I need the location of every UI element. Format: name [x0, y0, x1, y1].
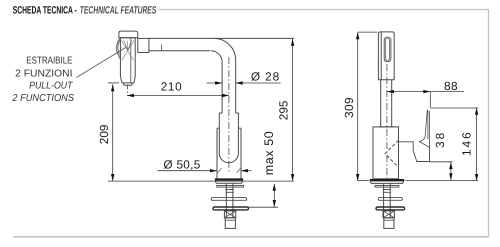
- svg-text:38: 38: [433, 131, 447, 148]
- svg-text:Ø 28: Ø 28: [251, 70, 280, 84]
- svg-text:146: 146: [460, 130, 474, 156]
- svg-text:2 FUNCTIONS: 2 FUNCTIONS: [11, 93, 74, 104]
- svg-text:SCHEDA TECNICA -: SCHEDA TECNICA -: [13, 5, 77, 17]
- svg-text:Ø 50,5: Ø 50,5: [163, 157, 200, 171]
- svg-text:PULL-OUT: PULL-OUT: [29, 81, 73, 92]
- svg-text:ESTRAIBILE: ESTRAIBILE: [26, 56, 72, 67]
- svg-text:TECHNICAL FEATURES: TECHNICAL FEATURES: [80, 5, 157, 17]
- svg-text:max 50: max 50: [262, 131, 276, 176]
- svg-text:88: 88: [444, 79, 458, 93]
- svg-text:309: 309: [342, 97, 356, 118]
- svg-text:2 FUNZIONI: 2 FUNZIONI: [15, 68, 72, 79]
- svg-text:295: 295: [276, 100, 290, 120]
- svg-text:209: 209: [97, 125, 111, 145]
- svg-text:210: 210: [161, 80, 182, 94]
